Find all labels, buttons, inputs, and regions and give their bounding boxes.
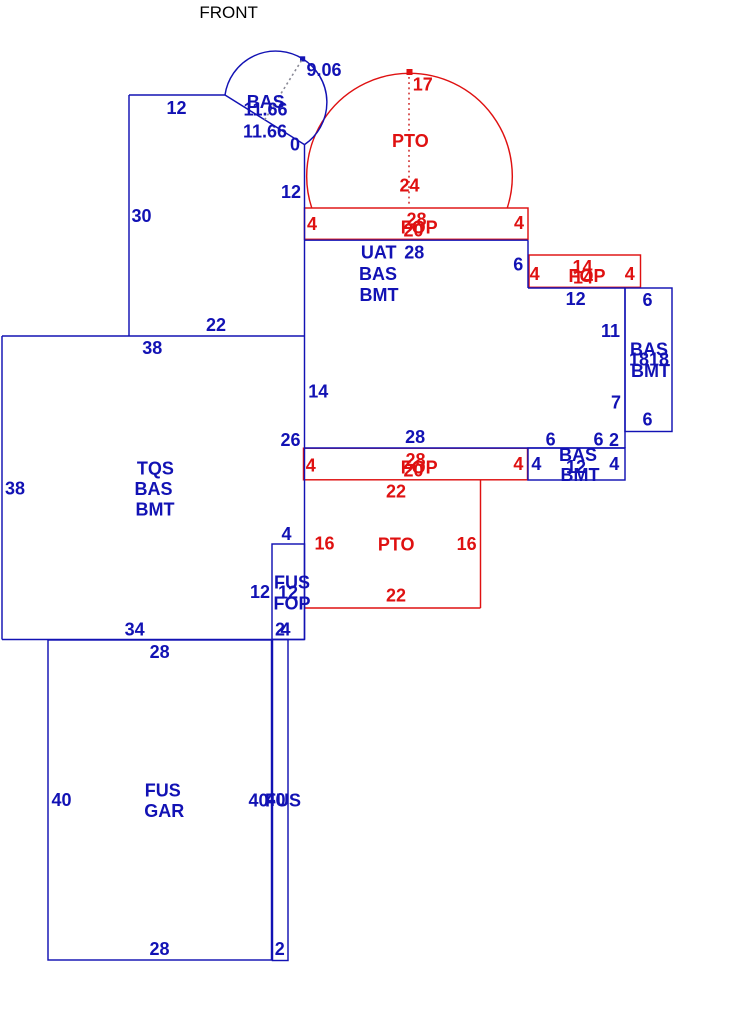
FOP rect 1 — [305, 208, 529, 239]
svg-text:FOP: FOP — [273, 594, 310, 614]
svg-text:11.66: 11.66 — [243, 100, 287, 120]
svg-text:28: 28 — [149, 939, 169, 959]
svg-text:16: 16 — [457, 534, 477, 554]
right BAS box — [625, 288, 672, 432]
svg-text:24: 24 — [399, 176, 419, 196]
blue marker square — [300, 56, 305, 61]
TQS left — [1, 336, 3, 640]
svg-text:4: 4 — [530, 264, 540, 284]
svg-text:TQS: TQS — [137, 458, 174, 478]
svg-text:12: 12 — [250, 582, 270, 602]
TQS top — [2, 335, 305, 337]
svg-text:6: 6 — [642, 409, 652, 429]
svg-text:22: 22 — [386, 585, 406, 605]
top edge — [129, 94, 225, 96]
svg-text:4: 4 — [531, 454, 541, 474]
svg-text:38: 38 — [5, 479, 25, 499]
svg-text:17: 17 — [413, 74, 433, 94]
svg-text:GAR: GAR — [144, 801, 184, 821]
TQS bottom — [2, 639, 305, 641]
svg-text:BMT: BMT — [136, 500, 175, 520]
GAR box — [48, 640, 272, 960]
BAS box 2 — [528, 448, 625, 480]
svg-text:2: 2 — [609, 430, 619, 450]
svg-text:PTO: PTO — [378, 535, 415, 555]
svg-text:12: 12 — [281, 182, 301, 202]
svg-text:40: 40 — [51, 790, 71, 810]
svg-text:11: 11 — [601, 321, 620, 341]
main vertical x=304.5 — [304, 145, 306, 640]
svg-text:20: 20 — [403, 460, 423, 480]
svg-text:14: 14 — [573, 268, 593, 288]
svg-text:14: 14 — [308, 382, 328, 402]
right vertical 6 — [527, 240, 529, 288]
svg-text:7: 7 — [611, 393, 621, 413]
right vertical 20 — [624, 288, 626, 448]
svg-text:11.66: 11.66 — [243, 122, 287, 142]
svg-text:PTO: PTO — [392, 131, 429, 151]
FOP rect 2 — [304, 448, 528, 480]
svg-text:FUS: FUS — [265, 791, 301, 811]
svg-text:6: 6 — [546, 429, 556, 449]
svg-text:2: 2 — [275, 939, 285, 959]
bay chord — [225, 95, 305, 145]
small FOP rect — [529, 255, 641, 287]
svg-text:BMT: BMT — [561, 465, 600, 485]
svg-text:4: 4 — [609, 454, 619, 474]
svg-text:4: 4 — [306, 456, 316, 476]
bay arc — [225, 51, 327, 145]
svg-text:FRONT: FRONT — [199, 3, 258, 22]
horizontal 12 — [528, 287, 625, 289]
red dotted line — [408, 77, 410, 206]
svg-text:38: 38 — [142, 338, 162, 358]
svg-text:28: 28 — [404, 242, 424, 262]
UAT bottom line — [305, 239, 529, 241]
svg-text:34: 34 — [125, 620, 145, 640]
svg-text:FUS: FUS — [145, 781, 181, 801]
svg-text:UAT: UAT — [361, 242, 397, 262]
svg-text:4: 4 — [280, 620, 290, 640]
svg-text:4: 4 — [625, 264, 635, 284]
svg-text:30: 30 — [131, 206, 151, 226]
svg-text:12: 12 — [566, 289, 586, 309]
svg-text:4: 4 — [514, 213, 524, 233]
svg-text:6: 6 — [642, 290, 652, 310]
svg-text:BMT: BMT — [631, 361, 670, 381]
svg-text:6: 6 — [513, 255, 523, 275]
svg-text:28: 28 — [405, 427, 425, 447]
PTO room lines — [480, 480, 482, 608]
svg-text:BAS: BAS — [359, 264, 397, 284]
svg-text:22: 22 — [206, 315, 226, 335]
svg-text:28: 28 — [150, 642, 170, 662]
left vertical 30 — [128, 95, 130, 336]
svg-text:BMT: BMT — [360, 285, 399, 305]
svg-text:BAS: BAS — [134, 479, 172, 499]
svg-text:0: 0 — [290, 134, 300, 154]
svg-text:22: 22 — [386, 482, 406, 502]
PTO circle arc — [307, 73, 513, 207]
svg-text:4: 4 — [307, 214, 317, 234]
red marker square — [407, 69, 413, 75]
horizontal y=448 — [305, 447, 626, 449]
svg-text:26: 26 — [280, 430, 300, 450]
FUS FOP box — [272, 544, 305, 640]
svg-text:4: 4 — [281, 524, 291, 544]
narrow FUS box — [273, 640, 289, 961]
svg-text:16: 16 — [314, 534, 334, 554]
svg-text:4: 4 — [513, 454, 523, 474]
svg-text:9.06: 9.06 — [306, 60, 341, 80]
svg-text:12: 12 — [166, 98, 186, 118]
blue dotted line — [265, 61, 302, 120]
svg-text:20: 20 — [403, 220, 423, 240]
